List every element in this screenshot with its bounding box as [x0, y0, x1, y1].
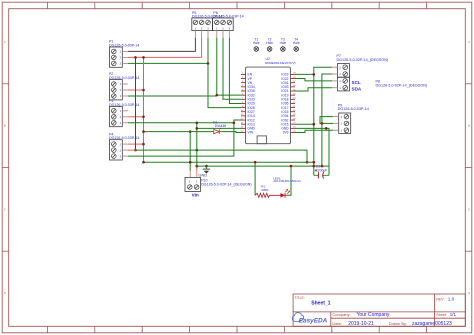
- ground symbol GND: [198, 166, 210, 178]
- svg-text:DG126-5.0-02P-14_(DEGSON): DG126-5.0-02P-14_(DEGSON): [337, 58, 389, 62]
- junction bus D1 net: [142, 130, 145, 133]
- connector P1 DG126-5.0-03P-14: [109, 40, 139, 68]
- junction Vin.1 line A: [189, 161, 192, 164]
- junction R1 branch: [254, 161, 257, 164]
- junction line A x307: [306, 161, 309, 164]
- wire v2 P7.1 down to line B (green): [322, 74, 332, 166]
- svg-text:TITLE:: TITLE:: [295, 296, 305, 300]
- line B horizontal GND net (green): [197, 166, 329, 175]
- connector P10 Vin DG126-5.0-02P-14: [185, 178, 252, 198]
- connector P5 DG126-5.0-03P-14: [192, 11, 223, 31]
- svg-text:EasyEDA: EasyEDA: [299, 317, 328, 324]
- wire D1 net from bus to diode (green): [144, 131, 214, 133]
- junction v2 P9.2: [321, 122, 324, 125]
- svg-text:A: A: [468, 40, 470, 44]
- svg-text:1N4448: 1N4448: [215, 124, 227, 128]
- svg-text:NODE32S-DEVKIT(V): NODE32S-DEVKIT(V): [265, 61, 296, 65]
- svg-text:330R: 330R: [261, 188, 269, 192]
- junction at P4.2: [134, 149, 137, 152]
- connector P2 DG126-5.0-03P-14: [109, 72, 139, 100]
- svg-text:REV:: REV:: [436, 297, 444, 301]
- capacitor C1 2200uF: [314, 165, 329, 179]
- junction Vin.2 line B: [196, 165, 199, 168]
- junction at P1.2: [134, 56, 137, 59]
- svg-text:Drawn By:: Drawn By:: [389, 321, 407, 326]
- svg-text:Company:: Company:: [332, 312, 350, 317]
- wire P9.3 to IO15 net: [320, 117, 333, 125]
- wire U2 IO22 to SCL P8.2: [295, 79, 332, 81]
- junction P3.3/P4.3: [233, 122, 236, 125]
- svg-text:204-10SURC/S530-A3: 204-10SURC/S530-A3: [273, 179, 301, 183]
- junction v2 line B: [321, 165, 324, 168]
- junction P4.2 wire at riser: [196, 149, 199, 152]
- wire P2.3 to IO32 net: [128, 95, 217, 97]
- svg-text:GND: GND: [198, 173, 207, 178]
- junction v1 line A: [313, 161, 316, 164]
- wire P4.3 to U2 IO12: [128, 120, 241, 156]
- svg-text:Hole: Hole: [280, 41, 287, 45]
- wire GND net branch to U2 GND: [197, 127, 241, 129]
- svg-text:Sheet_1: Sheet_1: [311, 300, 330, 306]
- junction GND net: [205, 165, 208, 168]
- svg-text:A: A: [4, 40, 6, 44]
- wire Vin pin2 up (red): [196, 166, 198, 171]
- svg-text:C: C: [4, 207, 6, 211]
- junction bus P1.2: [142, 56, 145, 59]
- junction bus P2.2: [142, 89, 145, 92]
- connector P6 DG126-5.0-03P-14: [213, 11, 244, 31]
- svg-text:Vin: Vin: [192, 192, 199, 197]
- wire P6.1 down to U2 IO32: [217, 38, 241, 96]
- svg-text:VIN: VIN: [248, 131, 254, 135]
- svg-text:3V3: 3V3: [283, 131, 289, 135]
- wire P3.3 to P4.3 net: [128, 122, 234, 124]
- wire U2 IO23 to v1: [295, 73, 314, 75]
- svg-text:SCL: SCL: [352, 80, 361, 85]
- svg-text:DG126-5.0-03P-14: DG126-5.0-03P-14: [338, 107, 369, 111]
- svg-text:Hole: Hole: [293, 41, 300, 45]
- wire U2 IO15 to v1: [295, 123, 314, 125]
- junction bus P3.2: [142, 116, 145, 119]
- test point T4 Hole: [293, 37, 300, 51]
- svg-text:Date:: Date:: [332, 321, 342, 326]
- wire P5.2 to P1.2 (red): [128, 38, 202, 58]
- svg-text:Your Company: Your Company: [357, 312, 390, 318]
- svg-text:2019-10-21: 2019-10-21: [348, 321, 374, 327]
- wire P4.1 to bus (red): [128, 143, 144, 145]
- wire P6.2 down to U2 IO33: [223, 38, 241, 100]
- junction v1 line B: [313, 165, 316, 168]
- EasyEDA logo: [292, 313, 327, 325]
- title block: [293, 294, 465, 327]
- wire LED to line B (green): [285, 166, 291, 195]
- wire P4.2 stub (red): [128, 149, 136, 151]
- wire D1 cathode to U2 VIN: [222, 131, 241, 134]
- riser line B to P3.3 line (green): [196, 123, 198, 166]
- svg-text:C: C: [468, 207, 470, 211]
- IC U2 NODE32S-DEVKIT(V): [241, 57, 297, 144]
- wire P3.2 to bus (red): [128, 116, 144, 118]
- svg-text:zazagame005123: zazagame005123: [412, 321, 452, 327]
- junction riser P3.3: [196, 122, 199, 125]
- svg-text:Hole: Hole: [253, 41, 260, 45]
- junction bus line A: [142, 161, 145, 164]
- resistor R1 330R: [255, 184, 280, 197]
- svg-text:D: D: [4, 291, 6, 295]
- junction bus P4.1: [142, 143, 145, 146]
- wire P1.3 to P5.3 (green): [128, 62, 208, 64]
- svg-text:Sheet:: Sheet:: [436, 313, 447, 317]
- connector pin stubs: [122, 31, 338, 178]
- wire P2.2 to bus (red): [128, 89, 144, 91]
- svg-text:SDA: SDA: [352, 87, 362, 92]
- line A horizontal (green): [144, 161, 314, 163]
- connector P9 DG126-5.0-03P-14: [338, 103, 369, 133]
- connector P4 DG126-5.0-03P-14: [109, 132, 139, 160]
- junction riser GND branch: [196, 127, 199, 130]
- red bus vertical: [143, 57, 145, 162]
- junction v1 IO15: [313, 123, 316, 126]
- black vertical from P1.2 to P4.2: [135, 57, 137, 150]
- wire P5.3 down to U2 IO26: [208, 38, 241, 108]
- LED LED1 204-10SURC/S530-A3: [273, 176, 301, 197]
- test point T2 Hole: [266, 37, 273, 51]
- junction P6.1/P2.3: [216, 94, 219, 97]
- test point T3 Hole: [280, 37, 287, 51]
- wire line A to R1 (green): [254, 162, 256, 195]
- wire P9.2 to v2: [322, 122, 333, 124]
- wire Vin pin1 riser (green): [189, 132, 191, 171]
- svg-text:DG126-5.0-02P-14_(DEGSON): DG126-5.0-02P-14_(DEGSON): [201, 182, 251, 186]
- junction v1 IO23: [313, 73, 316, 76]
- connector P8 DG126-5.0-02P-14 with SCL SDA labels: [338, 77, 428, 91]
- svg-text:D: D: [468, 291, 470, 295]
- junction on P5.3 wire at P1.3: [207, 62, 210, 65]
- test point T1 Hole: [253, 37, 260, 51]
- connector P7 DG126-5.0-02P-14: [337, 54, 389, 77]
- wire v1 P7.2 down to C1 left (green): [314, 67, 332, 175]
- svg-text:B: B: [4, 124, 6, 128]
- wire P4.2 to line A (green): [136, 150, 308, 162]
- wire P6.3 down to U2 IO25: [229, 38, 241, 104]
- junction LED line B: [290, 165, 293, 168]
- svg-text:1/1: 1/1: [450, 312, 457, 317]
- svg-text:B: B: [468, 124, 470, 128]
- svg-text:1.0: 1.0: [448, 297, 455, 302]
- wire U2 GND right down to C1 right: [295, 128, 329, 175]
- svg-text:Hole: Hole: [266, 41, 273, 45]
- wire U2 IO21 to SDA P8.1: [295, 88, 332, 91]
- wire U2 3V3 to P9.1: [295, 130, 333, 132]
- svg-text:DG126-5.0-02P-14_(DEGSON): DG126-5.0-02P-14_(DEGSON): [376, 83, 428, 87]
- connector P3 DG126-5.0-03P-14: [109, 99, 139, 127]
- wire P5.1 to P1.1 (black): [128, 38, 196, 52]
- junction GND right: [325, 127, 328, 130]
- junction Vin.1 D1 line: [189, 130, 192, 133]
- diode D1 1N4448: [213, 120, 226, 133]
- svg-text:μF: μF: [323, 169, 327, 173]
